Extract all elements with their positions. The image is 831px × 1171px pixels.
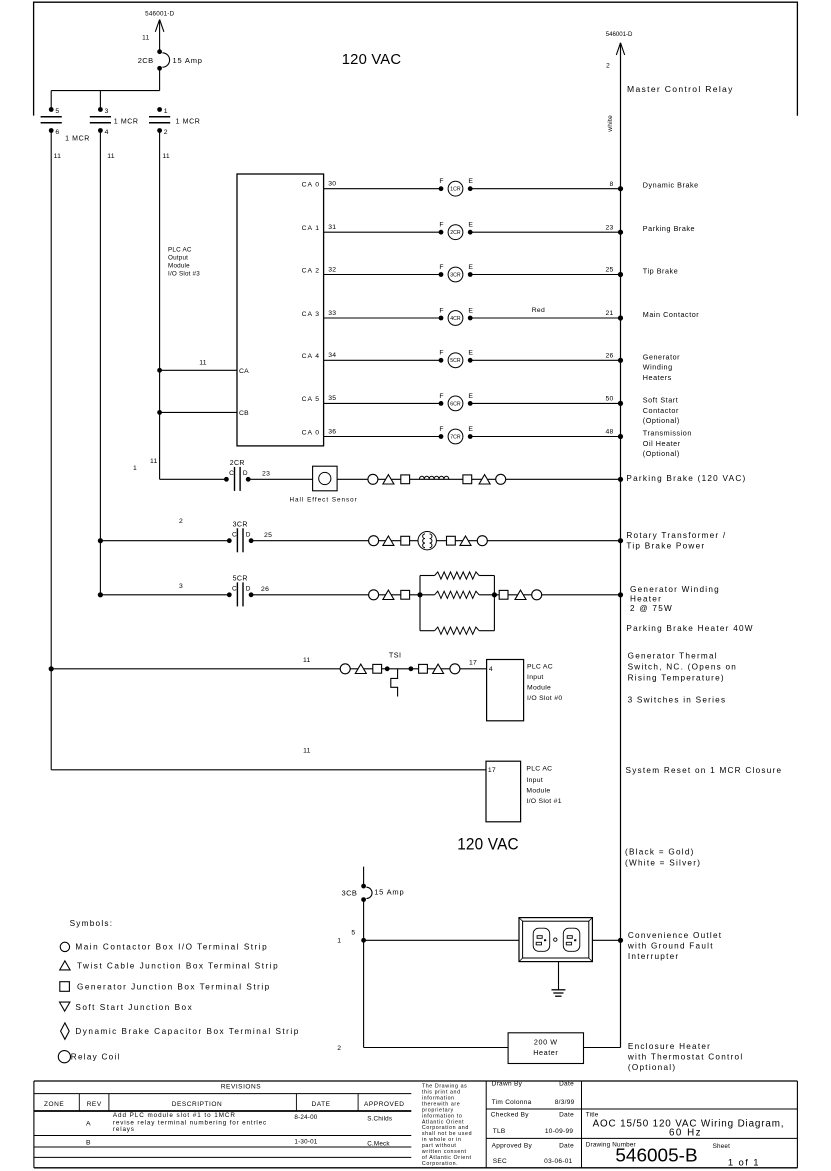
svg-text:2: 2 xyxy=(164,129,168,136)
svg-text:03-06-01: 03-06-01 xyxy=(544,1158,573,1165)
wire: branch 1 down xyxy=(50,91,52,110)
transformer: rotary transformer xyxy=(418,532,436,550)
legend diamond xyxy=(61,1023,70,1039)
terminal: twist cable triangle xyxy=(383,475,394,484)
svg-text:Input: Input xyxy=(527,674,544,681)
convenience outlet (GFI duplex receptacle) xyxy=(519,918,592,962)
terminal: twist cable triangle xyxy=(460,536,471,545)
svg-text:Output: Output xyxy=(168,254,188,261)
svg-text:CB: CB xyxy=(239,410,249,417)
svg-text:F: F xyxy=(439,178,443,185)
svg-text:11: 11 xyxy=(142,35,149,42)
svg-text:3CB: 3CB xyxy=(342,889,358,898)
wire: thermal switch row xyxy=(51,668,486,670)
terminal: twist cable triangle xyxy=(383,536,394,545)
svg-text:120 VAC: 120 VAC xyxy=(342,52,402,68)
svg-text:11: 11 xyxy=(54,153,61,160)
svg-text:50: 50 xyxy=(606,396,614,403)
svg-text:D: D xyxy=(246,585,251,592)
wire: 3CB feeder xyxy=(363,867,365,887)
svg-text:C: C xyxy=(229,470,234,477)
svg-text:7CR: 7CR xyxy=(450,434,461,440)
svg-text:CA 4: CA 4 xyxy=(302,353,320,360)
node outlet row junction xyxy=(361,938,366,943)
circuit breaker 3CB 15 Amp xyxy=(361,884,366,889)
node bus junction xyxy=(618,401,623,406)
svg-text:B: B xyxy=(86,1139,91,1146)
svg-text:(Optional): (Optional) xyxy=(643,449,680,458)
svg-text:revise relay terminal numberin: revise relay terminal numbering for entr… xyxy=(113,1119,267,1126)
svg-text:2 @ 75W: 2 @ 75W xyxy=(630,604,673,613)
wire: CB common xyxy=(160,411,237,413)
svg-text:36: 36 xyxy=(328,428,336,435)
wire: 2CB to bus junction xyxy=(159,68,161,90)
svg-text:D: D xyxy=(243,470,248,477)
wire: right return arrow xyxy=(616,43,624,55)
svg-text:CA 5: CA 5 xyxy=(302,396,320,403)
wire: top feeder loop from 546001-D xyxy=(34,2,798,116)
svg-text:Parking Brake (120 VAC): Parking Brake (120 VAC) xyxy=(626,474,746,483)
svg-text:1-30-01: 1-30-01 xyxy=(294,1138,317,1145)
svg-text:TSI: TSI xyxy=(389,650,402,659)
svg-text:2CB: 2CB xyxy=(138,56,154,65)
svg-text:Date: Date xyxy=(559,1142,574,1149)
wire: branch 2 down xyxy=(99,91,101,110)
svg-text:Hall Effect Sensor: Hall Effect Sensor xyxy=(290,497,358,504)
svg-text:Drawn By: Drawn By xyxy=(492,1081,523,1088)
svg-text:with Thermostat Control: with Thermostat Control xyxy=(627,1053,744,1062)
heater 200 W xyxy=(508,1033,583,1064)
wire: coil to bus xyxy=(470,359,620,361)
svg-text:546005-B: 546005-B xyxy=(615,1145,697,1166)
svg-text:E: E xyxy=(468,178,473,185)
svg-text:1 MCR: 1 MCR xyxy=(65,135,90,142)
PLC AC Output Module I/O Slot #3 xyxy=(237,174,324,446)
wire: branch 1 vertical to system-reset row xyxy=(50,131,52,770)
node branch2 junction xyxy=(98,538,103,543)
node bus junction xyxy=(618,538,623,543)
node bus junction xyxy=(618,938,623,943)
svg-text:5: 5 xyxy=(351,930,355,937)
svg-text:F: F xyxy=(439,393,443,400)
svg-text:Transmission: Transmission xyxy=(643,429,692,438)
svg-text:1: 1 xyxy=(133,465,137,472)
svg-text:Input: Input xyxy=(526,777,543,784)
svg-text:Sheet: Sheet xyxy=(713,1143,731,1150)
terminal: twist cable triangle xyxy=(515,590,526,599)
svg-text:3 Switches in Series: 3 Switches in Series xyxy=(628,696,727,705)
svg-text:E: E xyxy=(468,393,473,400)
node bus junction xyxy=(618,315,623,320)
relay coil 6CR xyxy=(439,401,444,406)
svg-text:System Reset on 1 MCR Closure: System Reset on 1 MCR Closure xyxy=(626,766,783,775)
svg-text:C: C xyxy=(232,585,237,592)
svg-text:(Optional): (Optional) xyxy=(628,1063,676,1072)
svg-text:2: 2 xyxy=(606,62,610,69)
terminal: generator box square xyxy=(463,475,472,484)
terminal: twist cable triangle xyxy=(433,664,444,673)
svg-text:5: 5 xyxy=(55,108,59,115)
svg-text:(White = Silver): (White = Silver) xyxy=(625,859,701,868)
resistor: heater top xyxy=(420,575,435,577)
svg-text:Soft Start: Soft Start xyxy=(643,396,678,405)
svg-text:23: 23 xyxy=(262,471,270,478)
terminal: contactor box circle xyxy=(369,536,379,546)
node CA tap xyxy=(157,368,162,373)
terminal: generator box square xyxy=(419,664,428,673)
svg-text:PLC AC: PLC AC xyxy=(527,664,553,671)
svg-text:Relay Coil: Relay Coil xyxy=(71,1053,121,1062)
svg-text:I/O Slot #3: I/O Slot #3 xyxy=(168,271,200,278)
svg-text:6: 6 xyxy=(55,129,59,136)
ground xyxy=(558,962,560,990)
svg-text:CA 1: CA 1 xyxy=(302,225,320,232)
svg-text:Parking Brake: Parking Brake xyxy=(643,224,695,233)
relay coil 2CR xyxy=(439,230,444,235)
svg-text:Module: Module xyxy=(168,263,190,270)
legend down-triangle xyxy=(60,1002,70,1011)
svg-text:F: F xyxy=(439,222,443,229)
terminal: twist cable triangle xyxy=(355,664,366,673)
svg-text:35: 35 xyxy=(328,395,336,402)
svg-text:(Optional): (Optional) xyxy=(643,416,680,425)
svg-text:34: 34 xyxy=(328,352,336,359)
svg-text:11: 11 xyxy=(162,153,169,160)
svg-text:CA 2: CA 2 xyxy=(302,267,320,274)
svg-text:S.Childs: S.Childs xyxy=(367,1116,392,1123)
svg-text:33: 33 xyxy=(328,310,336,317)
svg-text:CA 3: CA 3 xyxy=(302,311,320,318)
svg-text:Interrupter: Interrupter xyxy=(628,952,680,961)
svg-text:relays: relays xyxy=(113,1126,135,1133)
wire: right neutral bus xyxy=(620,43,622,1048)
svg-text:(Black = Gold): (Black = Gold) xyxy=(625,848,695,857)
svg-text:4: 4 xyxy=(489,666,493,673)
wire: heater to bus xyxy=(584,1047,621,1049)
svg-text:Main Contactor: Main Contactor xyxy=(643,310,699,319)
svg-text:I/O Slot #0: I/O Slot #0 xyxy=(527,695,562,702)
svg-text:1 MCR: 1 MCR xyxy=(176,118,201,125)
node bus junction xyxy=(618,477,623,482)
svg-text:3CR: 3CR xyxy=(450,272,461,278)
svg-text:CA: CA xyxy=(239,368,249,375)
svg-text:PLC AC: PLC AC xyxy=(168,246,192,253)
relay coil 7CR xyxy=(439,434,444,439)
svg-text:APPROVED: APPROVED xyxy=(364,1101,405,1108)
relay coil 4CR xyxy=(439,316,444,321)
svg-text:4CR: 4CR xyxy=(450,316,461,322)
svg-text:with Ground Fault: with Ground Fault xyxy=(627,942,714,951)
terminal: contactor box circle xyxy=(450,664,460,674)
title block frame xyxy=(34,1080,798,1082)
wire: coil to bus xyxy=(470,402,620,404)
svg-text:25: 25 xyxy=(606,267,614,274)
svg-text:120 VAC: 120 VAC xyxy=(457,835,519,854)
svg-text:Rotary Transformer /: Rotary Transformer / xyxy=(626,531,726,540)
terminal: twist cable triangle xyxy=(383,590,394,599)
svg-text:Approved By: Approved By xyxy=(492,1142,533,1149)
svg-text:ZONE: ZONE xyxy=(44,1101,64,1108)
svg-text:Dynamic Brake: Dynamic Brake xyxy=(643,181,699,190)
svg-text:Heaters: Heaters xyxy=(643,373,672,382)
PLC AC Input Module I/O Slot #1 xyxy=(486,761,521,822)
svg-text:E: E xyxy=(468,222,473,229)
relay coil 1CR xyxy=(439,186,444,191)
svg-text:Date: Date xyxy=(559,1111,574,1118)
inductor: brake coil xyxy=(419,476,448,479)
wire: branch 2 vertical to heater row xyxy=(99,131,101,595)
svg-text:Convenience Outlet: Convenience Outlet xyxy=(628,931,722,940)
svg-text:2: 2 xyxy=(337,1045,341,1052)
svg-text:5CR: 5CR xyxy=(450,358,461,364)
node bus junction xyxy=(618,272,623,277)
node network left xyxy=(417,592,422,597)
svg-text:Title: Title xyxy=(586,1111,599,1118)
terminal: generator box square xyxy=(401,590,410,599)
svg-text:Tim Colonna: Tim Colonna xyxy=(492,1099,532,1106)
svg-text:11: 11 xyxy=(199,360,206,367)
svg-text:Date: Date xyxy=(559,1081,574,1088)
svg-text:30: 30 xyxy=(328,181,336,188)
svg-text:11: 11 xyxy=(150,458,157,465)
svg-text:1 of 1: 1 of 1 xyxy=(728,1158,760,1169)
svg-text:F: F xyxy=(439,264,443,271)
svg-text:Add PLC module slot #1 to 1MCR: Add PLC module slot #1 to 1MCR xyxy=(113,1112,236,1119)
svg-text:E: E xyxy=(468,426,473,433)
svg-text:Generator: Generator xyxy=(643,353,680,362)
svg-text:Tip Brake: Tip Brake xyxy=(643,266,678,275)
svg-text:11: 11 xyxy=(303,748,310,755)
svg-text:1: 1 xyxy=(337,937,341,944)
svg-text:3: 3 xyxy=(179,583,183,590)
wire: 3CB to outlet row xyxy=(363,900,365,1048)
svg-text:5CR: 5CR xyxy=(233,576,248,583)
legend square xyxy=(60,982,70,992)
svg-text:17: 17 xyxy=(469,659,477,666)
svg-text:546001-D: 546001-D xyxy=(145,11,175,18)
terminal: generator box square xyxy=(401,475,410,484)
svg-text:31: 31 xyxy=(328,224,336,231)
svg-text:DATE: DATE xyxy=(311,1101,330,1108)
svg-text:Twist Cable Junction Box Termi: Twist Cable Junction Box Terminal Strip xyxy=(77,962,279,971)
svg-text:23: 23 xyxy=(606,224,614,231)
terminal: contactor box circle xyxy=(369,590,379,600)
svg-text:Generator Thermal: Generator Thermal xyxy=(628,652,718,661)
svg-text:17: 17 xyxy=(488,767,496,774)
terminal: contactor box circle xyxy=(532,590,542,600)
svg-text:Symbols:: Symbols: xyxy=(70,919,114,928)
wire: coil to bus xyxy=(470,436,620,438)
svg-text:Dynamic Brake Capacitor Box Te: Dynamic Brake Capacitor Box Terminal Str… xyxy=(75,1027,299,1036)
svg-text:Module: Module xyxy=(526,788,550,795)
contact 5CR xyxy=(227,592,232,597)
svg-text:Switch, NC. (Opens on: Switch, NC. (Opens on xyxy=(628,663,738,672)
svg-text:CA 0: CA 0 xyxy=(302,429,320,436)
svg-text:Main Contactor Box I/O Termina: Main Contactor Box I/O Terminal Strip xyxy=(75,943,268,952)
svg-text:200 W: 200 W xyxy=(534,1037,558,1046)
svg-text:2CR: 2CR xyxy=(450,230,461,236)
resistor: heater middle xyxy=(420,594,494,596)
svg-text:1 MCR: 1 MCR xyxy=(114,118,139,125)
terminal: generator box square xyxy=(373,664,382,673)
svg-text:25: 25 xyxy=(264,532,272,539)
legend relay coil circle xyxy=(58,1051,70,1063)
svg-text:Red: Red xyxy=(532,307,545,314)
wire: network verticals xyxy=(419,576,421,631)
svg-text:REV: REV xyxy=(87,1101,102,1108)
terminal: contactor box circle xyxy=(496,474,506,484)
svg-text:C.Meck: C.Meck xyxy=(367,1140,390,1147)
svg-text:8: 8 xyxy=(610,181,614,188)
PLC AC Input Module I/O Slot #0 xyxy=(487,660,524,721)
svg-text:CA 0: CA 0 xyxy=(302,182,320,189)
contact 1 MCR (1-2) xyxy=(157,107,162,112)
terminal: contactor box circle xyxy=(477,536,487,546)
svg-text:C: C xyxy=(232,531,237,538)
relay coil 3CR xyxy=(439,272,444,277)
wire: coil to bus xyxy=(470,317,620,319)
svg-text:E: E xyxy=(468,307,473,314)
node bus junction xyxy=(618,358,623,363)
svg-text:Master Control Relay: Master Control Relay xyxy=(627,84,734,94)
wire: horizontal distribution y=90.6 xyxy=(51,90,159,92)
svg-text:21: 21 xyxy=(606,310,614,317)
svg-text:8/3/99: 8/3/99 xyxy=(555,1099,575,1106)
terminal: generator box square xyxy=(499,590,508,599)
legend circle xyxy=(60,942,69,951)
terminal: contactor box circle xyxy=(340,664,350,674)
svg-text:I/O Slot #1: I/O Slot #1 xyxy=(526,798,561,805)
svg-text:3CR: 3CR xyxy=(233,522,248,529)
node bus junction xyxy=(618,592,623,597)
title block columns xyxy=(485,1081,487,1168)
svg-text:60 Hz: 60 Hz xyxy=(669,1128,702,1139)
svg-text:E: E xyxy=(468,350,473,357)
svg-text:Soft Start Junction Box: Soft Start Junction Box xyxy=(75,1003,193,1012)
terminal: twist cable triangle xyxy=(479,475,490,484)
svg-text:2: 2 xyxy=(179,518,183,525)
svg-text:Parking Brake Heater 40W: Parking Brake Heater 40W xyxy=(626,624,753,633)
contact 1 MCR (3-4) xyxy=(98,107,103,112)
svg-text:Heater: Heater xyxy=(630,595,662,604)
svg-text:11: 11 xyxy=(303,657,310,664)
svg-text:11: 11 xyxy=(107,153,114,160)
svg-text:10-09-99: 10-09-99 xyxy=(545,1128,574,1135)
wire: CA common xyxy=(160,369,237,371)
Hall Effect Sensor xyxy=(313,466,338,491)
contact 3CR xyxy=(227,538,232,543)
svg-text:DESCRIPTION: DESCRIPTION xyxy=(172,1101,222,1108)
wire: outlet to bus xyxy=(592,939,620,941)
svg-text:3: 3 xyxy=(105,108,109,115)
svg-text:2CR: 2CR xyxy=(230,460,245,467)
svg-text:Heater: Heater xyxy=(533,1048,558,1057)
svg-text:PLC AC: PLC AC xyxy=(526,766,552,773)
relay coil 5CR xyxy=(439,358,444,363)
node bus junction xyxy=(618,186,623,191)
svg-text:Enclosure Heater: Enclosure Heater xyxy=(628,1042,711,1051)
svg-text:6CR: 6CR xyxy=(450,401,461,407)
svg-text:Module: Module xyxy=(527,684,551,691)
svg-text:Winding: Winding xyxy=(643,363,673,372)
svg-text:Tip Brake Power: Tip Brake Power xyxy=(626,542,705,551)
contact 2CR xyxy=(224,477,229,482)
terminal: generator box square xyxy=(401,536,410,545)
svg-text:546001-D: 546001-D xyxy=(606,31,633,38)
svg-text:white: white xyxy=(607,115,614,133)
wire: left source arrow xyxy=(155,20,164,32)
node bus junction xyxy=(618,230,623,235)
svg-text:32: 32 xyxy=(328,266,336,273)
svg-text:D: D xyxy=(246,531,251,538)
node CB tap xyxy=(157,410,162,415)
svg-text:Generator Junction Box Termina: Generator Junction Box Terminal Strip xyxy=(77,983,271,992)
svg-text:F: F xyxy=(439,350,443,357)
svg-text:F: F xyxy=(439,307,443,314)
svg-text:Rising Temperature): Rising Temperature) xyxy=(628,674,725,683)
svg-text:SEC: SEC xyxy=(493,1158,507,1165)
contact 1 MCR (5-6) xyxy=(49,107,54,112)
svg-text:Checked By: Checked By xyxy=(491,1111,529,1118)
svg-text:E: E xyxy=(468,264,473,271)
node branch1 junction xyxy=(49,666,54,671)
svg-text:8-24-00: 8-24-00 xyxy=(294,1114,317,1121)
svg-text:REVISIONS: REVISIONS xyxy=(221,1084,261,1091)
terminal: contactor box circle xyxy=(368,474,378,484)
svg-text:A: A xyxy=(86,1121,91,1128)
svg-text:48: 48 xyxy=(606,429,614,436)
wire: system reset row xyxy=(51,769,486,771)
svg-text:26: 26 xyxy=(606,353,614,360)
legend triangle xyxy=(60,961,70,970)
svg-text:26: 26 xyxy=(261,586,269,593)
svg-text:Generator Winding: Generator Winding xyxy=(630,585,720,594)
svg-text:15 Amp: 15 Amp xyxy=(374,888,404,897)
resistor: heater bottom xyxy=(420,630,435,632)
svg-text:Contactor: Contactor xyxy=(643,406,679,415)
svg-text:4: 4 xyxy=(105,129,109,136)
wire: coil to bus xyxy=(470,274,620,276)
node bus junction xyxy=(618,434,623,439)
wire: branch 3 vertical to parking-brake row xyxy=(159,131,161,480)
terminal: generator box square xyxy=(447,536,456,545)
node network right xyxy=(492,592,497,597)
circuit breaker 2CB 15 Amp xyxy=(157,49,162,54)
svg-text:1CR: 1CR xyxy=(450,187,461,193)
svg-text:TLB: TLB xyxy=(493,1128,506,1135)
wire: coil to bus xyxy=(470,188,620,190)
svg-text:Oil Heater: Oil Heater xyxy=(643,439,681,448)
svg-text:Corporation.: Corporation. xyxy=(422,1161,458,1167)
svg-text:F: F xyxy=(439,426,443,433)
node branch2 end junction xyxy=(98,592,103,597)
svg-text:1: 1 xyxy=(164,108,168,115)
svg-text:15 Amp: 15 Amp xyxy=(173,56,203,65)
wire: coil to bus xyxy=(470,231,620,233)
